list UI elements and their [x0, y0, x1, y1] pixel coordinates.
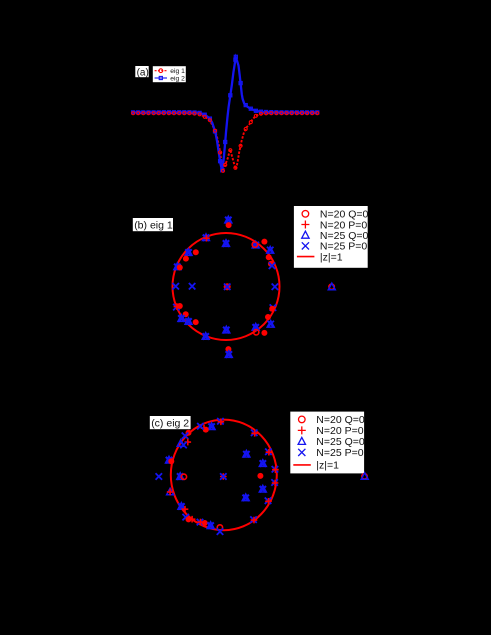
- svg-text:|z|=1: |z|=1: [320, 251, 343, 263]
- svg-text:(a): (a): [137, 68, 149, 79]
- svg-text:(c) eig 2: (c) eig 2: [151, 417, 189, 429]
- svg-text:eig 2: eig 2: [170, 75, 185, 82]
- svg-text:|z|=1: |z|=1: [316, 460, 339, 472]
- svg-text:(b) eig 1: (b) eig 1: [134, 219, 173, 231]
- svg-text:eig 1: eig 1: [170, 68, 185, 75]
- svg-text:N=25 P=0: N=25 P=0: [316, 447, 363, 459]
